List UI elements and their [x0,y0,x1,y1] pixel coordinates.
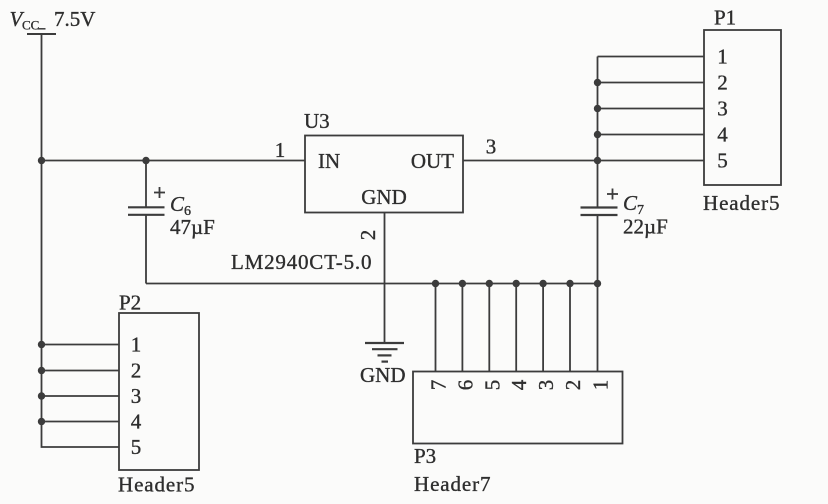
junction dot C6 tap [142,157,149,164]
svg-text:2: 2 [131,359,142,383]
wire P3 pin2 [569,284,571,372]
junction dot rail P3 pin4 [513,280,520,287]
wire P2 pin3 [42,395,120,397]
svg-text:Header7: Header7 [414,472,491,496]
wire P2 pin1 [42,344,120,346]
svg-text:4: 4 [131,410,142,434]
svg-text:1: 1 [589,380,613,391]
svg-text:1: 1 [275,138,286,162]
wire VCC vertical to P2 pin5 [42,34,120,447]
junction dot P2 pin3 [38,392,45,399]
junction dot P2 pin4 [38,418,45,425]
svg-text:6: 6 [453,380,477,391]
junction dot rail P3 pin6 [459,280,466,287]
wire U3 OUT to P1 [463,160,704,162]
svg-text:4: 4 [717,123,728,147]
svg-text:2: 2 [356,230,380,241]
svg-text:1: 1 [717,45,728,69]
capacitor C6 plates [128,207,165,215]
svg-text:P3: P3 [414,444,436,468]
svg-text:3: 3 [131,384,142,408]
capacitor C6 lead top [145,161,147,208]
junction dot VCC input [38,157,45,164]
junction dot P2 pin1 [38,341,45,348]
junction dot P1 bus pin2 [594,79,601,86]
svg-text:GND: GND [361,185,407,209]
svg-text:IN: IN [318,149,340,173]
svg-text:U3: U3 [304,109,330,133]
wire P3 pin3 [542,284,544,372]
svg-text:2: 2 [717,71,728,95]
svg-text:1: 1 [131,333,142,357]
wire P2 pin2 [42,370,120,372]
svg-text:4: 4 [507,379,531,390]
wire P3 pin7 [435,284,437,372]
regulator U3 box [305,136,463,213]
svg-text:22µF: 22µF [623,215,668,239]
wire input rail VCC to U3 IN [42,160,306,162]
wire U3 pin2 to ground [384,213,386,344]
wire P1 pin4 [598,134,705,136]
svg-text:3: 3 [717,97,728,121]
svg-text:Header5: Header5 [118,473,195,497]
svg-text:2: 2 [561,380,585,391]
capacitor C6 lead bottom [145,215,147,284]
junction dot rail P3 pin3 [539,280,546,287]
svg-text:7.5V: 7.5V [54,7,95,31]
junction dot rail P3 pin7 [432,280,439,287]
capacitor C7 plates [581,208,618,216]
svg-text:P1: P1 [714,6,736,30]
junction dot rail P3 pin5 [486,280,493,287]
wire P3 pin4 [515,284,517,372]
svg-text:5: 5 [717,149,728,173]
junction dot rail P3 pin2 [566,280,573,287]
junction dot OUT C7 [594,157,601,164]
svg-text:3: 3 [534,380,558,391]
capacitor C7 lead bottom / wire to P3 pin1 [597,215,599,372]
net label VCC 7.5V [10,7,96,33]
svg-text:CC: CC [22,18,39,33]
svg-text:GND: GND [360,363,406,387]
wire vertical bus P1/C7 upper [597,57,599,208]
wire P3 pin6 [461,284,463,372]
svg-text:LM2940CT-5.0: LM2940CT-5.0 [231,250,372,274]
svg-text:5: 5 [131,435,142,459]
wire P1 pin2 [598,82,705,84]
junction dot P1 bus pin4 [594,131,601,138]
svg-text:P2: P2 [119,291,141,315]
wire P1 pin3 [598,108,705,110]
header P3 box [413,372,623,444]
ground rail wire [146,283,598,285]
svg-text:7: 7 [427,380,451,391]
svg-text:5: 5 [480,380,504,391]
ground symbol [365,343,404,362]
svg-text:3: 3 [486,135,497,159]
wire P2 pin4 [42,421,120,423]
svg-text:OUT: OUT [411,149,454,173]
junction dot P1 bus pin3 [594,105,601,112]
junction dot P2 pin2 [38,367,45,374]
svg-text:Header5: Header5 [703,191,780,215]
svg-text:47µF: 47µF [170,215,215,239]
power VCC bar [27,33,56,35]
wire P1 pin1 [598,56,705,58]
header P2 box [119,313,199,470]
capacitor C6 plus sign [154,187,165,198]
header P1 box [704,30,781,185]
wire P3 pin5 [488,284,490,372]
capacitor C7 plus sign [607,189,618,200]
junction dot rail C7 [594,280,601,287]
